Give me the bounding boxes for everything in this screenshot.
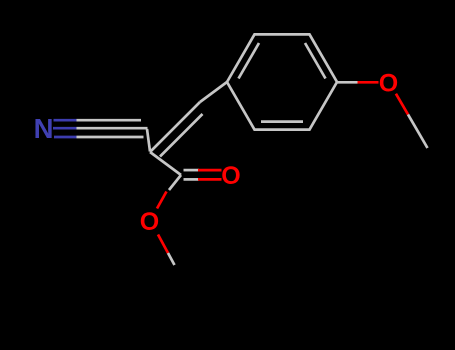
aromatic inner line upper-left xyxy=(239,43,260,79)
C=C double bond (vinyl) xyxy=(150,102,200,152)
wire nitrile C to alpha C xyxy=(147,129,150,152)
benzene ring C1-C6 xyxy=(227,34,337,129)
ester C-O single bond (carbon half) xyxy=(169,175,181,190)
wire vinyl CH to ring xyxy=(200,82,227,102)
methoxy O-CH3 bond (red half) xyxy=(396,94,408,115)
aromatic inner line bottom xyxy=(261,120,303,123)
ester C-O single bond (red half) xyxy=(157,192,167,209)
svg-text:O: O xyxy=(221,162,240,190)
nitrile triple bond C#N (carbon half) xyxy=(77,120,148,137)
methoxy O-CH3 bond (carbon half) xyxy=(408,114,428,148)
svg-text:N: N xyxy=(34,113,54,144)
carbonyl C=O double bond dark stubs xyxy=(184,170,200,179)
wire ring to methoxy O (carbon half) xyxy=(337,81,358,84)
ester O-CH3 bond (dark tip) xyxy=(168,253,175,265)
nitrile triple bond C#N (blue half) xyxy=(53,120,77,137)
svg-text:O: O xyxy=(379,70,398,98)
aromatic inner line upper-right xyxy=(305,43,326,79)
carbonyl C=O double bond red lines xyxy=(198,170,222,179)
ester O-CH3 bond (red part) xyxy=(158,235,168,254)
svg-text:O: O xyxy=(140,208,159,236)
alpha C to carbonyl C wire xyxy=(150,152,181,175)
wire ring to methoxy O (red half) xyxy=(358,81,379,84)
